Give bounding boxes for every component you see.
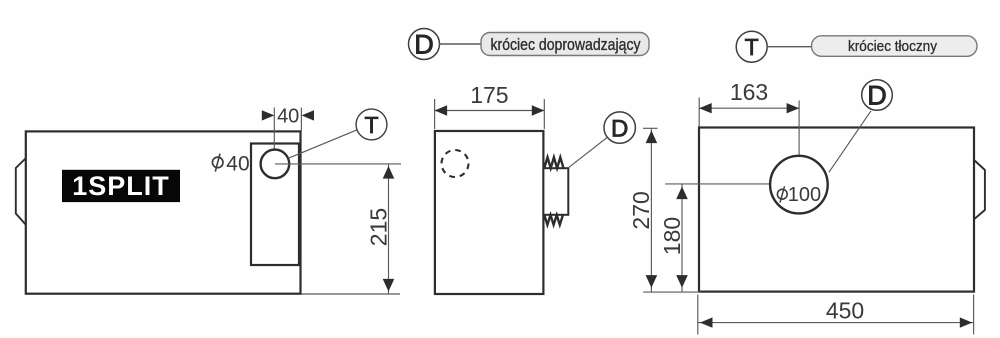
svg-text:T: T (745, 34, 759, 60)
svg-text:100: 100 (788, 184, 821, 206)
svg-text:175: 175 (470, 82, 508, 108)
svg-text:40: 40 (226, 152, 249, 175)
svg-text:króciec tłoczny: króciec tłoczny (848, 39, 938, 55)
dim 450 left extension line (697, 295, 699, 335)
dim 180 line (681, 184, 683, 292)
dim 215 line (388, 164, 390, 294)
left mounting tab (16, 158, 27, 226)
left view main box (26, 131, 301, 293)
dim 270 top extension line (643, 127, 658, 129)
svg-text:1SPLIT: 1SPLIT (72, 171, 170, 201)
dim 450 left arrow (700, 317, 713, 327)
dim 175 extension lines (434, 99, 436, 129)
dim 40 extension line (through circle center) (273, 108, 275, 165)
dim 450 right arrow (960, 317, 973, 327)
dim 163 right arrow (787, 103, 800, 113)
dim 175 line (435, 110, 545, 112)
middle view box (435, 131, 544, 294)
dim 40 right arrow (302, 110, 315, 120)
dashed circle (hidden port) (442, 150, 469, 177)
legend T connector line (767, 46, 812, 48)
side port rectangle (543, 168, 568, 215)
dim 163 line (699, 107, 799, 109)
dim 215 down arrow (383, 279, 395, 292)
dim 163 left arrow (699, 103, 712, 113)
svg-text:40: 40 (277, 105, 299, 127)
D balloon circle (middle) (604, 112, 635, 143)
T leader line (289, 130, 358, 159)
dim 215 up arrow (383, 166, 395, 179)
dim 40 left arrow (262, 110, 275, 120)
dim 40 extension line right (300, 108, 302, 132)
svg-text:163: 163 (730, 79, 768, 105)
svg-text:450: 450 (826, 298, 864, 324)
circle port D (ø100) (770, 156, 828, 214)
dim 450 line (698, 322, 974, 324)
centerline horizontal (665, 183, 799, 185)
svg-text:D: D (611, 115, 628, 142)
legend T pill: króciec tłoczny (812, 36, 978, 57)
D leader line (right) (829, 111, 871, 173)
svg-text:180: 180 (659, 217, 685, 255)
dim 180 down arrow (676, 275, 688, 288)
dim 175 right arrow (532, 105, 545, 115)
svg-text:215: 215 (365, 208, 391, 246)
dim 180 up arrow (676, 187, 688, 200)
legend D connector line (440, 43, 482, 45)
svg-text:D: D (414, 30, 434, 60)
bottom zigzag spring (544, 215, 563, 225)
bottom extension line (270/180) (643, 291, 701, 293)
T balloon circle (356, 109, 387, 140)
ø100 value label (777, 184, 821, 206)
top zigzag spring (544, 157, 563, 168)
dim 270 line (650, 129, 652, 292)
legend D circle (409, 29, 440, 60)
dim 215 bottom reference line (302, 293, 401, 295)
D leader line (middle) (568, 137, 607, 168)
svg-text:T: T (364, 112, 378, 138)
centerline vertical (163 right extension) (798, 101, 800, 184)
svg-text:270: 270 (628, 191, 654, 229)
svg-text:D: D (867, 81, 887, 111)
dim 270 up arrow (646, 131, 658, 144)
right view box (699, 128, 974, 292)
right mounting tab (974, 160, 985, 220)
1SPLIT label (62, 170, 180, 202)
ø40 value label (212, 152, 249, 175)
legend D pill: króciec doprowadzający (481, 33, 649, 56)
dim 215 top reference line (275, 163, 401, 165)
legend T circle (736, 31, 767, 62)
circle port T (ø40) (261, 150, 290, 179)
dim 270 down arrow (646, 275, 658, 288)
dim 163 left extension line (698, 98, 700, 127)
dim 175 left arrow (435, 105, 448, 115)
port column (251, 144, 299, 266)
svg-text:króciec doprowadzający: króciec doprowadzający (491, 36, 642, 54)
dim 450 right extension line (973, 295, 975, 335)
D balloon circle (right) (862, 80, 893, 111)
